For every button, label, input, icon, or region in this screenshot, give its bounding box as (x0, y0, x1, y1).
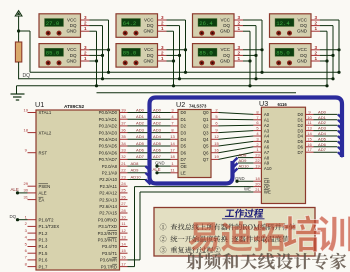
wire sensor 2 GND (90, 60, 97, 62)
svg-text:ALE: ALE (11, 187, 19, 192)
wire lower rail (97, 92, 297, 94)
svg-text:PSEN: PSEN (39, 184, 51, 189)
svg-text:GND: GND (220, 29, 231, 34)
wire column 3 DQ vertical (255, 26, 257, 79)
svg-text:D3: D3 (181, 130, 187, 135)
svg-text:21: 21 (121, 161, 126, 166)
svg-text:OE: OE (181, 164, 187, 169)
svg-text:AD8: AD8 (239, 153, 248, 158)
wire column 2 GND vertical (173, 31, 175, 86)
svg-text:LE: LE (181, 171, 186, 176)
svg-text:1: 1 (315, 26, 318, 31)
svg-text:A1: A1 (264, 118, 270, 123)
bus AD0-AD10 main (150, 98, 343, 184)
svg-text:VCC: VCC (67, 47, 77, 52)
svg-text:19: 19 (255, 163, 260, 168)
svg-text:Q3: Q3 (203, 130, 209, 135)
DS18B20 temperature sensor 6 (193, 44, 235, 68)
svg-text:DQ: DQ (23, 73, 31, 79)
DS18B20 temperature sensor 5 (193, 14, 235, 38)
U3 pin names (264, 112, 304, 195)
svg-text:AD2: AD2 (318, 120, 327, 125)
svg-text:VCC: VCC (297, 47, 307, 52)
svg-text:1: 1 (84, 26, 87, 31)
svg-text:2: 2 (315, 21, 318, 26)
svg-text:2: 2 (238, 50, 241, 55)
svg-text:Q6: Q6 (203, 150, 209, 155)
svg-text:23: 23 (255, 153, 260, 158)
svg-text:3: 3 (315, 15, 318, 20)
wire sensor 8 VCC (320, 49, 339, 51)
net labels AD8-AD10 at U1 (131, 161, 142, 179)
svg-text:P0.0/AD0: P0.0/AD0 (99, 110, 118, 115)
junctions column 2 (172, 48, 187, 87)
svg-text:3: 3 (161, 45, 164, 50)
svg-text:P0.6/AD6: P0.6/AD6 (99, 150, 118, 155)
svg-text:P3.1/TXD: P3.1/TXD (98, 224, 117, 229)
wire sensor 3 VCC (167, 19, 186, 21)
svg-text:11: 11 (121, 221, 126, 226)
svg-text:19: 19 (24, 107, 29, 112)
svg-text:A10: A10 (264, 166, 272, 171)
svg-text:2: 2 (84, 21, 87, 26)
svg-text:3: 3 (238, 45, 241, 50)
svg-text:10: 10 (121, 215, 126, 220)
svg-text:14: 14 (170, 141, 175, 146)
svg-text:Q4: Q4 (203, 137, 209, 142)
svg-text:26.4: 26.4 (199, 20, 213, 27)
svg-text:A6: A6 (264, 145, 270, 150)
resistor R1 (15, 42, 21, 62)
svg-text:2: 2 (161, 50, 164, 55)
wire column 3 GND vertical (249, 31, 251, 86)
wire VCC branch to rail (19, 31, 30, 72)
svg-text:D0: D0 (298, 112, 304, 117)
svg-text:GND: GND (297, 29, 308, 34)
svg-text:18: 18 (255, 176, 260, 181)
svg-text:AD0: AD0 (318, 109, 327, 114)
DS18B20 temperature sensor 1 (39, 14, 81, 38)
svg-text:28: 28 (121, 208, 126, 213)
svg-text:P2.1/A9: P2.1/A9 (102, 171, 118, 176)
svg-text:OE: OE (264, 184, 270, 189)
svg-text:11: 11 (307, 120, 312, 125)
svg-text:3: 3 (238, 15, 241, 20)
svg-text:27.0: 27.0 (46, 20, 60, 27)
svg-text:24: 24 (121, 181, 126, 186)
svg-text:2: 2 (315, 50, 318, 55)
svg-text:AD7: AD7 (318, 147, 327, 152)
sensor 3 pins VCC 3 DQ 2 GND 1 (158, 15, 167, 31)
wire column 4 DQ vertical (332, 26, 334, 79)
svg-text:CE: CE (264, 179, 270, 184)
svg-text:AD1: AD1 (136, 114, 145, 119)
svg-text:DQ: DQ (70, 53, 77, 58)
svg-text:EA: EA (39, 197, 45, 202)
svg-text:AD10: AD10 (131, 174, 142, 179)
wire sensor 7 DQ (320, 25, 333, 27)
svg-text:Q0: Q0 (203, 110, 209, 115)
svg-text:2: 2 (238, 21, 241, 26)
sensor 1 pins VCC 3 DQ 2 GND 1 (81, 15, 90, 31)
U2 pin stubs and numbers (170, 107, 219, 173)
svg-text:AD0: AD0 (153, 107, 162, 112)
wire sensor 3 GND (167, 30, 174, 32)
svg-text:D2: D2 (298, 123, 304, 128)
svg-text:Q1: Q1 (203, 117, 209, 122)
svg-text:GND: GND (67, 29, 78, 34)
power VCC (15, 11, 22, 42)
junctions column 1 (95, 48, 110, 87)
wire U1 P3.6 WR to U3 WE (128, 192, 254, 260)
svg-text:P1.1/T2EX: P1.1/T2EX (39, 224, 60, 229)
wire U3 CE to GND label (235, 180, 253, 183)
U1 right pin stubs and numbers (120, 107, 128, 266)
svg-text:3: 3 (84, 15, 87, 20)
svg-text:22: 22 (121, 168, 126, 173)
junctions column 4 (325, 48, 340, 87)
svg-text:13: 13 (307, 126, 312, 131)
svg-text:AD5: AD5 (153, 141, 162, 146)
wire sensor 5 DQ (243, 25, 256, 27)
wire sensor 6 GND (243, 60, 250, 62)
svg-text:25: 25 (121, 188, 126, 193)
svg-text:1: 1 (238, 56, 241, 61)
wires U2 Q0-Q7 to U3 A0-A7 (219, 113, 254, 160)
wires AD8-AD10 bus to U3 (238, 158, 253, 169)
svg-text:VCC: VCC (220, 47, 230, 52)
svg-text:85.0: 85.0 (276, 50, 290, 57)
DS18B20 temperature sensor 4 (116, 44, 158, 68)
svg-text:P3.6/WR: P3.6/WR (100, 258, 117, 263)
svg-text:DQ: DQ (147, 53, 154, 58)
svg-text:74LS373: 74LS373 (189, 104, 207, 109)
svg-text:18: 18 (170, 154, 175, 159)
svg-text:DQ: DQ (70, 23, 77, 28)
svg-text:AD2: AD2 (153, 121, 162, 126)
svg-text:AD4: AD4 (153, 134, 162, 139)
U3 pin stubs and numbers (253, 109, 313, 192)
svg-text:D7: D7 (181, 157, 187, 162)
svg-text:16: 16 (214, 148, 219, 153)
svg-text:VCC: VCC (67, 17, 77, 22)
svg-text:A8: A8 (264, 155, 270, 160)
DS18B20 temperature sensor 2 (39, 44, 81, 68)
wire U1 P1.0 DQ stub (16, 218, 28, 221)
wire U2 LE to ALE label (155, 171, 170, 174)
svg-text:P1.4: P1.4 (39, 244, 48, 249)
svg-text:29: 29 (24, 181, 29, 186)
svg-text:D6: D6 (181, 150, 187, 155)
svg-text:21: 21 (255, 187, 260, 192)
svg-text:P3.4/T0: P3.4/T0 (102, 244, 118, 249)
net labels AD0-AD7 (136, 107, 162, 159)
svg-text:WE: WE (244, 187, 251, 192)
wire sensor 3 DQ (167, 25, 180, 27)
svg-text:XTAL1: XTAL1 (39, 110, 52, 115)
wires AD8-AD10 U1 to bus (128, 166, 147, 179)
svg-text:13: 13 (170, 134, 175, 139)
svg-text:Q2: Q2 (203, 124, 209, 129)
svg-text:AD5: AD5 (136, 141, 145, 146)
svg-text:23: 23 (121, 174, 126, 179)
svg-text:37: 37 (121, 121, 126, 126)
svg-text:P1.5: P1.5 (39, 251, 48, 256)
svg-text:P1.2: P1.2 (39, 231, 48, 236)
DS18B20 temperature sensor 8 (270, 44, 312, 68)
svg-text:XTAL2: XTAL2 (39, 130, 52, 135)
svg-text:31: 31 (24, 194, 29, 199)
svg-text:D1: D1 (298, 118, 304, 123)
svg-text:P0.1/AD1: P0.1/AD1 (99, 117, 118, 122)
svg-text:GND: GND (155, 161, 165, 166)
svg-text:D7: D7 (298, 150, 304, 155)
svg-text:3: 3 (161, 15, 164, 20)
svg-text:20: 20 (255, 182, 260, 187)
svg-text:RST: RST (39, 150, 48, 155)
svg-text:A0: A0 (264, 112, 270, 117)
wire sensor 1 DQ (90, 25, 103, 27)
svg-text:DQ: DQ (300, 23, 307, 28)
svg-text:AD6: AD6 (153, 148, 162, 153)
wire column 2 VCC vertical (185, 20, 187, 72)
memory U3 6116 body (261, 107, 305, 203)
svg-text:GND: GND (235, 176, 245, 181)
svg-text:33: 33 (121, 148, 126, 153)
svg-text:39: 39 (121, 107, 126, 112)
svg-text:P2.7/A15: P2.7/A15 (99, 211, 117, 216)
U1 left pin stubs and numbers (24, 107, 36, 266)
svg-text:P2.4/A12: P2.4/A12 (99, 191, 117, 196)
svg-text:A7: A7 (264, 150, 270, 155)
svg-text:P2.2/A10: P2.2/A10 (99, 177, 117, 182)
svg-text:AD4: AD4 (136, 134, 145, 139)
svg-text:VCC: VCC (220, 17, 230, 22)
svg-text:A2: A2 (264, 123, 270, 128)
svg-text:64.2: 64.2 (123, 20, 136, 27)
svg-text:17: 17 (170, 148, 175, 153)
svg-text:AD8: AD8 (131, 161, 140, 166)
svg-text:15: 15 (121, 248, 126, 253)
latch U2 74LS373 body (178, 110, 211, 178)
svg-text:D0: D0 (181, 110, 187, 115)
svg-text:GND: GND (144, 29, 155, 34)
sensor 7 pins VCC 3 DQ 2 GND 1 (311, 15, 320, 31)
microcontroller U1 AT89C52 body (36, 110, 120, 270)
wires AD0-AD7 U3 to bus (314, 114, 338, 152)
svg-text:P0.4/AD4: P0.4/AD4 (99, 137, 118, 142)
svg-text:AD3: AD3 (153, 127, 162, 132)
svg-text:D4: D4 (298, 134, 304, 139)
svg-text:U2: U2 (176, 100, 185, 109)
svg-text:P1.3: P1.3 (39, 238, 48, 243)
wire sensor 4 VCC (167, 49, 186, 51)
svg-text:AD7: AD7 (153, 154, 162, 159)
svg-text:P0.5/AD5: P0.5/AD5 (99, 144, 118, 149)
svg-text:D1: D1 (181, 117, 187, 122)
note line 2 (160, 236, 289, 243)
svg-text:11: 11 (170, 168, 175, 173)
sensor 8 pins VCC 3 DQ 2 GND 1 (311, 45, 320, 61)
svg-text:D5: D5 (181, 144, 187, 149)
wire column 3 VCC vertical (261, 20, 263, 72)
net labels AD0-AD7 at U3 right (318, 109, 327, 152)
note box 工作过程 (154, 208, 315, 257)
svg-text:32: 32 (121, 154, 126, 159)
svg-text:DQ: DQ (10, 214, 17, 219)
wire column 4 GND vertical (326, 31, 328, 86)
svg-text:Q5: Q5 (203, 144, 209, 149)
svg-text:85.0: 85.0 (123, 50, 137, 57)
svg-text:A5: A5 (264, 139, 270, 144)
svg-text:1: 1 (161, 26, 164, 31)
svg-text:35: 35 (121, 134, 126, 139)
wire U1 P3.7 RD to U3 OE (128, 187, 254, 267)
wire sensor 6 VCC (243, 49, 262, 51)
svg-text:Q7: Q7 (203, 157, 209, 162)
svg-text:85.0: 85.0 (199, 50, 213, 57)
svg-text:AD9: AD9 (131, 168, 140, 173)
wire sensor 4 GND (167, 60, 174, 62)
svg-text:AD7: AD7 (136, 154, 145, 159)
ground (11, 86, 25, 100)
svg-text:14: 14 (307, 131, 312, 136)
wire sensor 8 GND (320, 60, 327, 62)
bus entries (146, 114, 343, 184)
svg-text:AT89C52: AT89C52 (64, 104, 85, 110)
svg-text:D3: D3 (298, 128, 304, 133)
svg-text:18: 18 (24, 127, 29, 132)
svg-text:17: 17 (121, 261, 126, 266)
svg-text:P1.6: P1.6 (39, 258, 48, 263)
svg-text:GND: GND (144, 58, 155, 63)
net labels AD8-AD10 at U3 (239, 153, 250, 169)
svg-text:ALE: ALE (153, 167, 161, 172)
sensor 6 pins VCC 3 DQ 2 GND 1 (234, 45, 243, 61)
svg-text:VCC: VCC (144, 17, 154, 22)
svg-text:DQ: DQ (223, 53, 230, 58)
svg-text:AD0: AD0 (136, 107, 145, 112)
sensor 2 pins VCC 3 DQ 2 GND 1 (81, 45, 90, 61)
svg-text:15: 15 (214, 141, 219, 146)
wire sensor 5 GND (243, 30, 250, 32)
wire column 4 VCC vertical (338, 20, 340, 72)
svg-text:1: 1 (84, 56, 87, 61)
wire U1 ALE stub (16, 191, 28, 194)
svg-text:P2.0/A8: P2.0/A8 (102, 164, 118, 169)
wire column 1 DQ vertical (102, 26, 104, 79)
svg-text:P2.3/A11: P2.3/A11 (100, 184, 118, 189)
svg-text:P0.3/AD3: P0.3/AD3 (99, 130, 118, 135)
svg-text:P3.0/RXD: P3.0/RXD (98, 217, 117, 222)
svg-text:GND: GND (220, 58, 231, 63)
wire sensor 4 DQ (167, 54, 180, 56)
svg-text:AD6: AD6 (318, 142, 327, 147)
svg-text:2: 2 (84, 50, 87, 55)
wire resistor to DQ rail (18, 62, 20, 79)
svg-text:P3.2/INT0: P3.2/INT0 (98, 231, 118, 236)
svg-text:P3.7/RD: P3.7/RD (101, 264, 117, 269)
wire sensor 6 DQ (243, 54, 256, 56)
svg-text:P3.3/INT1: P3.3/INT1 (98, 238, 118, 243)
svg-text:AD1: AD1 (153, 114, 162, 119)
svg-text:15: 15 (307, 136, 312, 141)
svg-text:WE: WE (264, 190, 271, 195)
svg-text:D5: D5 (298, 139, 304, 144)
svg-text:AD3: AD3 (318, 126, 327, 131)
svg-text:22: 22 (255, 158, 260, 163)
svg-text:13: 13 (121, 235, 126, 240)
svg-text:VCC: VCC (297, 17, 307, 22)
svg-text:10: 10 (307, 115, 312, 120)
watermark logo 易迪拓培训 (189, 221, 285, 252)
svg-text:14: 14 (121, 241, 126, 246)
svg-text:P2.5/A13: P2.5/A13 (99, 197, 117, 202)
svg-text:16: 16 (121, 255, 126, 260)
svg-text:D4: D4 (181, 137, 187, 142)
wire column 1 VCC vertical (108, 20, 110, 72)
svg-text:P1.0/T2: P1.0/T2 (39, 217, 55, 222)
wire sensor 2 VCC (90, 49, 109, 51)
svg-text:GND: GND (297, 58, 308, 63)
svg-text:DQ: DQ (223, 23, 230, 28)
wire sensor 1 VCC (90, 19, 109, 21)
wire column 1 GND vertical (96, 31, 98, 86)
junctions column 3 (248, 48, 263, 87)
svg-text:1: 1 (315, 56, 318, 61)
svg-text:12: 12 (214, 134, 219, 139)
wire sensor 7 GND (320, 30, 327, 32)
sensor 5 pins VCC 3 DQ 2 GND 1 (234, 15, 243, 31)
svg-text:1: 1 (161, 56, 164, 61)
svg-text:A3: A3 (264, 128, 270, 133)
svg-text:1: 1 (238, 26, 241, 31)
wire VCC rail (30, 71, 339, 73)
svg-text:38: 38 (121, 114, 126, 119)
svg-text:26: 26 (121, 194, 126, 199)
DS18B20 temperature sensor 3 (116, 14, 158, 38)
svg-text:12: 12 (121, 228, 126, 233)
svg-text:85.0: 85.0 (46, 50, 60, 57)
svg-text:AD6: AD6 (136, 148, 145, 153)
wire column 2 DQ vertical (179, 26, 181, 79)
junction VCC branch (17, 29, 20, 32)
watermark text 射频和天线设计专家 (187, 253, 347, 270)
svg-text:AD9: AD9 (239, 158, 248, 163)
note line 1 (160, 224, 296, 231)
wire sensor 7 VCC (320, 19, 339, 21)
svg-text:D2: D2 (181, 124, 187, 129)
wires AD0-AD7 U1 to U2 (128, 113, 171, 160)
U1 left pin names (39, 110, 60, 269)
svg-text:VCC: VCC (144, 47, 154, 52)
svg-text:36: 36 (121, 127, 126, 132)
svg-text:GND: GND (67, 58, 78, 63)
svg-text:3: 3 (84, 45, 87, 50)
note line 3 (160, 247, 221, 254)
svg-text:AD4: AD4 (318, 131, 327, 136)
wire sensor 2 DQ (90, 54, 103, 56)
svg-text:U1: U1 (35, 100, 44, 109)
svg-text:ALE: ALE (39, 191, 47, 196)
svg-text:D6: D6 (298, 145, 304, 150)
svg-text:19: 19 (214, 154, 219, 159)
svg-text:A4: A4 (264, 134, 270, 139)
wire GND rail (17, 85, 328, 87)
svg-text:AD1: AD1 (318, 115, 327, 120)
svg-text:AD10: AD10 (239, 163, 250, 168)
svg-text:16: 16 (307, 142, 312, 147)
